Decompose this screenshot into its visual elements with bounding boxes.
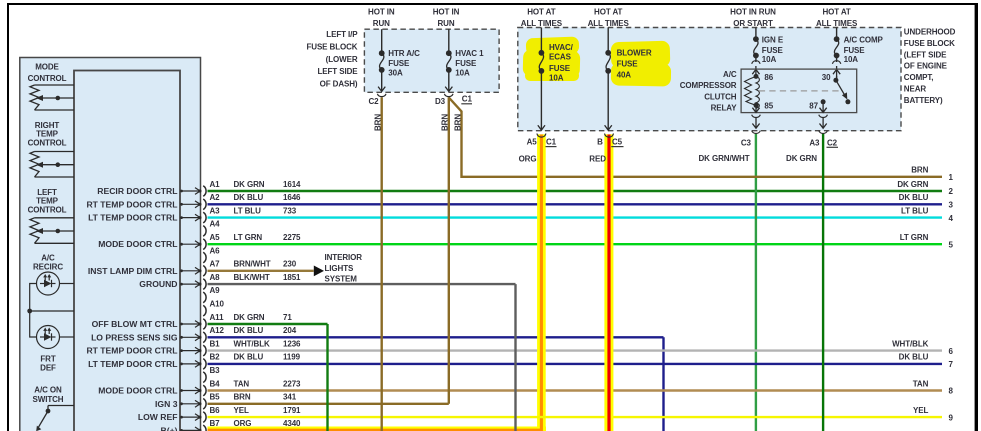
wire BRN off-page destination 1 (911, 166, 953, 182)
svg-text:CONTROL: CONTROL (28, 206, 67, 215)
pin A2 connector (86, 193, 301, 210)
wire B1 WHT/BLK 1236 row 6 (208, 349, 943, 351)
svg-text:HVAC 1: HVAC 1 (455, 49, 484, 58)
svg-text:DK GRN: DK GRN (234, 313, 265, 322)
svg-text:1646: 1646 (283, 193, 301, 202)
svg-text:3: 3 (949, 201, 954, 210)
svg-text:2: 2 (949, 187, 954, 196)
relay name label (680, 70, 738, 113)
svg-text:IGN 3: IGN 3 (155, 399, 178, 409)
svg-text:RT TEMP DOOR CTRL: RT TEMP DOOR CTRL (86, 346, 177, 356)
wire BRN from D3 vertical to B5 (448, 97, 450, 404)
svg-text:(LOWER: (LOWER (326, 55, 358, 64)
svg-text:A7: A7 (210, 260, 221, 269)
svg-text:RUN: RUN (437, 19, 454, 28)
svg-text:A4: A4 (210, 220, 221, 229)
svg-text:4340: 4340 (283, 419, 301, 428)
svg-text:1791: 1791 (283, 406, 301, 415)
svg-text:OR START: OR START (733, 19, 773, 28)
svg-text:FUSE BLOCK: FUSE BLOCK (306, 42, 357, 51)
LED A/C RECIRC indicator (30, 272, 74, 337)
svg-text:C1: C1 (546, 138, 557, 147)
connector C5 label (611, 138, 623, 147)
wire A11 DK GRN 71 vertical (326, 324, 328, 431)
svg-text:30: 30 (822, 73, 831, 82)
svg-text:FUSE: FUSE (762, 46, 784, 55)
svg-text:A6: A6 (210, 246, 221, 255)
svg-text:FRT: FRT (40, 355, 55, 364)
svg-text:A3: A3 (210, 206, 221, 215)
pin A5 connector (98, 233, 301, 250)
svg-text:TAN: TAN (913, 379, 929, 388)
svg-text:341: 341 (283, 393, 297, 402)
svg-text:FUSE: FUSE (549, 64, 571, 73)
LED FRT DEF indicator (37, 326, 75, 349)
svg-text:A1: A1 (210, 180, 221, 189)
relay switch arm from 30 (836, 80, 851, 104)
svg-text:BATTERY): BATTERY) (904, 96, 943, 105)
highlighter blob over HVAC/ECAS fuse label (523, 37, 581, 81)
svg-text:1199: 1199 (283, 353, 301, 362)
wire LT GRN off-page destination 5 (900, 233, 954, 249)
svg-text:86: 86 (764, 73, 773, 82)
wire ORG from A5/C1 down and across to B7 (208, 135, 542, 431)
svg-text:1851: 1851 (283, 273, 301, 282)
svg-text:BRN: BRN (234, 393, 251, 402)
svg-text:INST LAMP DIM CTRL: INST LAMP DIM CTRL (88, 266, 178, 276)
svg-text:C5: C5 (612, 138, 623, 147)
wire DK GRN from A3/C2 vertical (822, 134, 824, 431)
interior lights system off-page arrow (314, 253, 362, 284)
svg-text:HOT AT: HOT AT (527, 8, 555, 17)
wire A7 BRN/WHT 230 to interior lights (208, 270, 314, 272)
wire DK GRN/WHT from C3 vertical (755, 134, 757, 431)
wire B2 DK BLU 1199 row 7 (208, 363, 943, 365)
svg-text:10A: 10A (549, 74, 564, 83)
svg-text:FUSE BLOCK: FUSE BLOCK (904, 39, 955, 48)
svg-text:FUSE: FUSE (617, 59, 639, 68)
svg-text:71: 71 (283, 313, 292, 322)
fuse BLOWER 40A feed line (605, 28, 614, 138)
highlighter blob over BLOWER fuse label (611, 41, 672, 87)
svg-text:204: 204 (283, 326, 297, 335)
wire DK BLU off-page destination 3 (899, 193, 954, 209)
wire A12 DK BLU 204 horizontal (208, 336, 664, 338)
svg-text:IGN E: IGN E (762, 35, 784, 44)
fuse HTR A/C element (379, 50, 385, 73)
yellow highlight band over RED vertical wire from C5 (604, 134, 613, 431)
svg-text:COMPT,: COMPT, (904, 73, 934, 82)
label HOT IN RUN (HVAC 1 fuse) (433, 8, 460, 29)
fuse HVAC/ECAS 10A feed line (537, 28, 546, 138)
svg-text:HOT AT: HOT AT (594, 8, 622, 17)
wire A8 BLK/WHT 1851 ground horizontal (208, 283, 516, 285)
svg-text:DK BLU: DK BLU (234, 193, 264, 202)
svg-text:BRN/WHT: BRN/WHT (234, 260, 271, 269)
svg-text:LT BLU: LT BLU (234, 206, 262, 215)
potentiometer MODE CONTROL (30, 85, 74, 110)
svg-text:LIGHTS: LIGHTS (325, 264, 354, 273)
svg-text:1236: 1236 (283, 339, 301, 348)
svg-text:(LEFT SIDE: (LEFT SIDE (904, 50, 947, 59)
svg-text:BRN: BRN (441, 114, 450, 131)
wire B4 TAN 2273 row 8 (208, 389, 943, 391)
svg-text:D3: D3 (435, 97, 446, 106)
svg-text:A3: A3 (809, 138, 820, 147)
svg-text:A/C ON: A/C ON (34, 386, 62, 395)
svg-text:OF DASH): OF DASH) (320, 80, 358, 89)
label HOT AT ALL TIMES (A/C COMP fuse) (816, 8, 858, 29)
svg-text:B5: B5 (210, 393, 221, 402)
wire RED from B/C5 vertical (607, 135, 610, 431)
wire TAN off-page destination 8 (913, 379, 954, 395)
A/C compressor clutch relay box (741, 69, 857, 113)
svg-text:A/C: A/C (723, 70, 737, 79)
yellow highlight band over ORG B7 wire (horizontal) (208, 427, 547, 431)
svg-text:9: 9 (949, 413, 954, 422)
label HOT IN RUN OR START (IGN E fuse) (730, 8, 776, 29)
wire BRN from C1 to row 1 (449, 98, 942, 177)
svg-text:ALL TIMES: ALL TIMES (588, 19, 630, 28)
svg-text:A9: A9 (210, 286, 221, 295)
fuse HTR A/C label (388, 49, 420, 78)
yellow highlight band over ORG vertical wire from C1 (537, 134, 546, 431)
svg-text:B6: B6 (210, 406, 221, 415)
svg-text:DK BLU: DK BLU (234, 326, 264, 335)
left I/P fuse block name (306, 30, 358, 89)
wire A2 DK BLU 1646 row 3 (208, 203, 943, 205)
svg-text:BLK/WHT: BLK/WHT (234, 273, 270, 282)
svg-text:DK BLU: DK BLU (899, 193, 929, 202)
fuse BLOWER label (617, 48, 652, 79)
svg-text:SWITCH: SWITCH (33, 395, 64, 404)
svg-text:ALL TIMES: ALL TIMES (816, 19, 858, 28)
potentiometer LEFT TEMP CONTROL (30, 218, 74, 244)
svg-text:MODE DOOR CTRL: MODE DOOR CTRL (98, 239, 177, 249)
svg-text:10A: 10A (762, 55, 777, 64)
relay pin 87 output to A3/C2 (819, 108, 828, 134)
svg-text:DEF: DEF (40, 364, 56, 373)
relay pin 85 output to C3 (752, 105, 761, 133)
svg-text:TEMP: TEMP (36, 130, 59, 139)
pin A1 connector (97, 180, 301, 197)
svg-text:ALL TIMES: ALL TIMES (521, 19, 563, 28)
svg-text:SYSTEM: SYSTEM (325, 275, 358, 284)
svg-text:MODE DOOR CTRL: MODE DOOR CTRL (98, 386, 177, 396)
svg-text:B1: B1 (210, 339, 221, 348)
svg-text:40A: 40A (617, 71, 632, 80)
svg-text:A10: A10 (210, 300, 225, 309)
svg-text:HOT IN: HOT IN (368, 8, 395, 17)
pin A10 connector (203, 300, 224, 317)
svg-text:FUSE: FUSE (388, 59, 410, 68)
svg-text:C2: C2 (368, 97, 379, 106)
pin A6 connector (203, 246, 220, 262)
svg-text:230: 230 (283, 260, 297, 269)
pin B6 connector (138, 406, 301, 423)
svg-text:RECIRC: RECIRC (33, 263, 63, 272)
underhood fuse block name (904, 28, 956, 105)
fuse HVAC/ECAS label (549, 43, 574, 83)
svg-text:A12: A12 (210, 326, 225, 335)
svg-text:2273: 2273 (283, 379, 301, 388)
switch A/C ON (38, 406, 74, 429)
svg-text:A2: A2 (210, 193, 221, 202)
svg-text:LT GRN: LT GRN (900, 233, 929, 242)
relay actuation dashed link (759, 90, 841, 92)
svg-text:DK GRN: DK GRN (786, 154, 817, 163)
svg-text:A8: A8 (210, 273, 221, 282)
fuse IGN E 10A feed line (752, 28, 760, 77)
connector C1 label (left fuse block) (461, 95, 472, 104)
svg-text:MODE: MODE (35, 63, 59, 72)
connector C2 label (relay output) (827, 138, 839, 147)
fuse HVAC 1 element (446, 50, 452, 73)
potentiometer RIGHT TEMP CONTROL (30, 152, 74, 178)
fuse HVAC 1 label (455, 49, 484, 78)
svg-text:ORG: ORG (519, 155, 537, 164)
svg-text:DK GRN: DK GRN (897, 180, 928, 189)
svg-text:LT TEMP DOOR CTRL: LT TEMP DOOR CTRL (88, 359, 177, 369)
svg-text:A5: A5 (210, 233, 221, 242)
svg-text:A11: A11 (210, 313, 225, 322)
svg-text:LO PRESS SENS SIG: LO PRESS SENS SIG (91, 332, 178, 342)
svg-text:10A: 10A (844, 55, 859, 64)
pin B4 connector (98, 379, 301, 396)
HVAC control assembly outer box (20, 58, 201, 431)
svg-text:B: B (597, 138, 603, 147)
svg-text:CONTROL: CONTROL (28, 74, 67, 83)
svg-text:2275: 2275 (283, 233, 301, 242)
svg-text:RECIR DOOR CTRL: RECIR DOOR CTRL (97, 186, 177, 196)
svg-text:DK GRN: DK GRN (234, 180, 265, 189)
connector C1 label (underhood) (546, 138, 557, 147)
svg-text:GROUND: GROUND (139, 279, 177, 289)
wire A11 DK GRN 71 horizontal (208, 323, 328, 325)
relay pin 85 node (754, 102, 774, 111)
control panel labels (28, 63, 67, 405)
svg-text:85: 85 (764, 102, 773, 111)
svg-text:OFF BLOW MT CTRL: OFF BLOW MT CTRL (92, 319, 178, 329)
wire A3 LT BLU 733 row 4 (208, 216, 943, 218)
pin A3 connector (88, 206, 297, 223)
pin B3 connector (203, 366, 220, 383)
svg-text:NEAR: NEAR (904, 85, 927, 94)
svg-text:HOT IN RUN: HOT IN RUN (730, 8, 776, 17)
relay pin 86 node (754, 73, 774, 82)
HVAC control module inner box (74, 71, 180, 431)
wire B5 BRN 341 to D3 (208, 403, 449, 405)
pin A12 connector (91, 326, 297, 343)
svg-text:LEFT SIDE: LEFT SIDE (318, 67, 359, 76)
svg-text:733: 733 (283, 206, 297, 215)
svg-text:B(+): B(+) (161, 425, 178, 431)
svg-text:A5: A5 (527, 138, 538, 147)
label HOT IN RUN (HTR A/C fuse) (368, 8, 395, 29)
svg-text:INTERIOR: INTERIOR (325, 253, 363, 262)
svg-text:LT BLU: LT BLU (901, 206, 929, 215)
wire LT BLU off-page destination 4 (901, 206, 953, 222)
svg-text:8: 8 (949, 387, 954, 396)
svg-text:FUSE: FUSE (844, 46, 866, 55)
wire A12 DK BLU 204 vertical (662, 337, 664, 431)
svg-text:LT GRN: LT GRN (234, 233, 263, 242)
pin A11 connector (92, 313, 293, 330)
svg-text:WHT/BLK: WHT/BLK (234, 339, 271, 348)
label HOT AT ALL TIMES (BLOWER fuse) (588, 8, 630, 29)
svg-text:C2: C2 (827, 138, 838, 147)
svg-text:DK BLU: DK BLU (899, 353, 929, 362)
pin A9 connector (203, 286, 220, 303)
pin B2 connector (88, 353, 301, 370)
svg-text:1614: 1614 (283, 180, 301, 189)
pin A7 connector (88, 260, 297, 277)
svg-text:BLOWER: BLOWER (617, 48, 652, 57)
pin B7 connector (161, 419, 302, 431)
wire DK BLU off-page destination 7 (899, 353, 954, 369)
wire A1 DK GRN 1614 row 2 (208, 190, 943, 192)
relay coil between 86 and 85 (745, 76, 760, 108)
svg-text:HOT AT: HOT AT (822, 8, 850, 17)
pin B1 connector (86, 339, 301, 356)
svg-text:CONTROL: CONTROL (28, 139, 67, 148)
wire WHT/BLK off-page destination 6 (892, 339, 953, 355)
wire BRN from C2 vertical (381, 97, 383, 431)
svg-text:BRN: BRN (911, 166, 928, 175)
svg-text:A/C COMP: A/C COMP (844, 35, 884, 44)
svg-text:LT TEMP DOOR CTRL: LT TEMP DOOR CTRL (88, 213, 177, 223)
fuse HTR A/C 30A feed line (377, 29, 386, 96)
svg-text:B7: B7 (210, 419, 221, 428)
relay pin 30 node (822, 73, 839, 83)
node junction on LED branch (27, 309, 32, 314)
svg-text:OF ENGINE: OF ENGINE (904, 62, 948, 71)
svg-text:HTR A/C: HTR A/C (388, 49, 420, 58)
svg-text:DK BLU: DK BLU (234, 353, 264, 362)
svg-text:5: 5 (949, 240, 954, 249)
svg-text:LEFT I/P: LEFT I/P (326, 30, 358, 39)
svg-text:C1: C1 (462, 95, 473, 104)
label HOT AT ALL TIMES (HVAC/ECAS fuse) (521, 8, 563, 29)
pin A4 connector (203, 220, 220, 237)
svg-text:ECAS: ECAS (549, 53, 572, 62)
svg-text:BRN: BRN (374, 114, 383, 131)
svg-text:BRN: BRN (453, 114, 462, 131)
svg-text:30A: 30A (388, 69, 403, 78)
fuse HVAC/ECAS element (539, 50, 545, 74)
fuse BLOWER element (605, 50, 611, 74)
wire YEL off-page destination 9 (913, 406, 953, 422)
svg-text:YEL: YEL (234, 406, 249, 415)
svg-text:A/C: A/C (41, 254, 55, 263)
wire A8 BLK/WHT ground vertical (514, 284, 516, 431)
svg-text:RUN: RUN (373, 19, 390, 28)
svg-text:TAN: TAN (234, 379, 250, 388)
wire B6 YEL 1791 row 9 (208, 416, 943, 418)
left I/P fuse block box (364, 29, 499, 92)
svg-text:1: 1 (949, 173, 954, 182)
svg-text:6: 6 (949, 347, 954, 356)
svg-text:B3: B3 (210, 366, 221, 375)
fuse A/C COMP 10A feed line (832, 28, 840, 81)
fuse A/C COMP element (834, 36, 840, 58)
pin A8 connector (139, 273, 301, 290)
svg-text:RT TEMP DOOR CTRL: RT TEMP DOOR CTRL (86, 199, 177, 209)
underhood fuse block box (518, 28, 901, 131)
pin B5 connector (155, 393, 297, 410)
wire DK GRN off-page destination 2 (897, 180, 953, 196)
svg-text:YEL: YEL (913, 406, 928, 415)
svg-text:ORG: ORG (234, 419, 252, 428)
svg-text:FUSE: FUSE (455, 59, 477, 68)
svg-text:87: 87 (809, 102, 818, 111)
svg-text:C3: C3 (741, 138, 752, 147)
svg-text:RELAY: RELAY (711, 104, 738, 113)
fuse HVAC 1 10A feed line (444, 29, 453, 96)
svg-text:UNDERHOOD: UNDERHOOD (904, 28, 956, 37)
svg-text:B4: B4 (210, 379, 221, 388)
fuse IGN E element (753, 36, 759, 58)
svg-text:7: 7 (949, 360, 954, 369)
fuse A/C COMP label (844, 35, 884, 64)
svg-text:COMPRESSOR: COMPRESSOR (680, 81, 737, 90)
fuse IGN E label (762, 35, 784, 64)
wire A5 LT GRN 2275 row 5 (208, 243, 943, 245)
svg-text:HVAC/: HVAC/ (549, 43, 574, 52)
svg-text:RED: RED (589, 155, 606, 164)
svg-text:HOT IN: HOT IN (433, 8, 460, 17)
svg-text:4: 4 (949, 214, 954, 223)
svg-text:DK GRN/WHT: DK GRN/WHT (699, 154, 750, 163)
svg-text:CLUTCH: CLUTCH (704, 92, 737, 101)
svg-text:10A: 10A (455, 69, 470, 78)
svg-text:WHT/BLK: WHT/BLK (892, 339, 929, 348)
relay pin 87 node (809, 99, 825, 110)
svg-text:LOW REF: LOW REF (138, 412, 178, 422)
svg-text:B2: B2 (210, 353, 221, 362)
svg-text:TEMP: TEMP (36, 197, 59, 206)
